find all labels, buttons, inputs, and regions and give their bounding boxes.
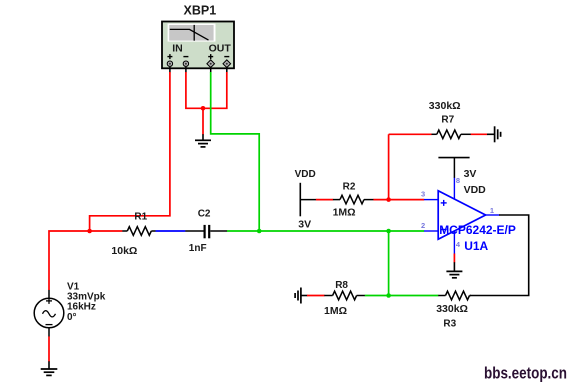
power rail op-amp VDD bar xyxy=(438,158,469,178)
resistor R1 xyxy=(122,227,156,236)
terminal stubs xyxy=(170,67,227,73)
resistor R3 xyxy=(438,291,471,300)
capacitor C2 xyxy=(185,225,227,238)
svg-text:R8: R8 xyxy=(335,280,348,291)
op-amp U1A pin8 lead xyxy=(453,178,455,199)
terminal IN- xyxy=(183,61,188,66)
svg-text:XBP1: XBP1 xyxy=(184,4,217,18)
label V1 xyxy=(67,281,106,323)
svg-text:3: 3 xyxy=(421,190,425,199)
wire R7 to ground xyxy=(471,133,488,135)
svg-text:0°: 0° xyxy=(67,312,77,323)
svg-text:IN: IN xyxy=(172,42,183,54)
svg-text:3V: 3V xyxy=(298,219,311,231)
ground right of R7 xyxy=(495,126,501,142)
svg-text:R7: R7 xyxy=(441,114,454,125)
terminal OUT- xyxy=(223,60,231,68)
wire feedback node down (green) xyxy=(388,231,390,296)
svg-text:C2: C2 xyxy=(198,208,211,219)
resistor R8 xyxy=(324,291,365,300)
svg-text:R3: R3 xyxy=(443,319,456,330)
wire pin4 to ground xyxy=(453,254,455,263)
wire R8 to R3 (green) xyxy=(365,295,439,297)
ground below V1 xyxy=(41,369,58,375)
svg-text:1nF: 1nF xyxy=(189,243,207,254)
op-amp pin3 lead xyxy=(424,199,438,201)
svg-text:bbs.eetop.cn: bbs.eetop.cn xyxy=(484,364,567,383)
junction main node xyxy=(87,229,92,234)
ground below XBP1 xyxy=(195,140,211,147)
junction R8/R3 node xyxy=(386,293,391,298)
wire V1 top to main net xyxy=(49,231,122,290)
terminal IN+ xyxy=(167,61,172,66)
svg-text:R2: R2 xyxy=(343,182,356,193)
wire to R7 xyxy=(389,133,432,135)
wire IN+ to input net xyxy=(90,72,170,231)
ground left of R8 xyxy=(295,288,301,304)
junction pin3 node xyxy=(386,197,391,202)
wire VDD to R2 xyxy=(316,199,333,201)
junction C2 output node xyxy=(257,229,262,234)
svg-text:330kΩ: 330kΩ xyxy=(436,303,468,315)
op-amp pin1 lead xyxy=(486,214,500,216)
wire up to R7 xyxy=(388,134,390,199)
wire to ground xyxy=(202,108,204,134)
wire V1 bottom xyxy=(48,336,50,361)
svg-text:3V: 3V xyxy=(464,168,477,180)
svg-text:10kΩ: 10kΩ xyxy=(111,245,137,257)
svg-text:VDD: VDD xyxy=(464,184,487,196)
resistor R7 xyxy=(432,130,472,139)
op-amp U1A pin4 lead xyxy=(453,231,455,254)
op-amp pin2 lead xyxy=(424,230,438,232)
svg-text:MCP6242-E/P: MCP6242-E/P xyxy=(439,223,516,237)
terminal OUT+ xyxy=(207,60,215,68)
svg-text:2: 2 xyxy=(421,221,425,230)
wire op-amp output xyxy=(470,215,529,296)
wire ground to R8 xyxy=(307,295,325,297)
ground below op-amp xyxy=(446,271,462,277)
op-amp U1A triangle xyxy=(438,191,485,239)
instrument XBP1 bode plotter body xyxy=(162,22,234,69)
source V1 xyxy=(34,290,64,337)
wire R1 to C2 (blue) xyxy=(156,230,186,232)
svg-text:VDD: VDD xyxy=(295,169,316,180)
wire R2 to pin3 xyxy=(373,199,424,201)
svg-text:OUT: OUT xyxy=(209,42,232,54)
svg-text:U1A: U1A xyxy=(464,239,488,253)
wire OUT+ green xyxy=(211,72,260,231)
svg-text:R1: R1 xyxy=(134,211,147,222)
svg-text:330kΩ: 330kΩ xyxy=(429,100,461,112)
wire IN- / OUT- loop xyxy=(186,72,227,108)
junction feedback node xyxy=(386,229,391,234)
svg-text:1: 1 xyxy=(490,206,494,215)
svg-text:1MΩ: 1MΩ xyxy=(324,305,347,317)
svg-text:4: 4 xyxy=(456,240,461,249)
resistor R2 xyxy=(333,195,374,204)
svg-text:1MΩ: 1MΩ xyxy=(333,207,356,219)
svg-text:8: 8 xyxy=(456,176,460,185)
wire C2 to op-amp pin2 (green) xyxy=(227,230,424,232)
power VDD symbol xyxy=(300,183,316,217)
junction ground net xyxy=(201,106,206,111)
